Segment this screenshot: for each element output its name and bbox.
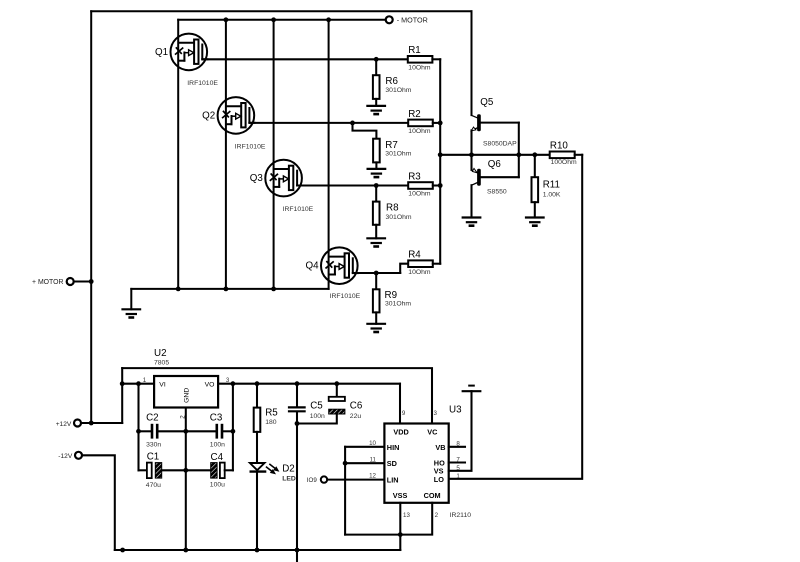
wire: U2 GND pin column <box>185 408 187 550</box>
wire: R6 bottom stub <box>375 99 377 106</box>
wire: VS lead to inverted ground <box>449 391 472 471</box>
resistor R3 <box>408 182 433 189</box>
wire: R3 to bus <box>433 184 440 186</box>
svg-text:C3: C3 <box>210 413 223 424</box>
wire: COM drop <box>400 503 432 535</box>
svg-text:Q2: Q2 <box>202 110 215 121</box>
svg-text:HIN: HIN <box>387 443 400 452</box>
wire: LIN lead <box>327 479 384 481</box>
svg-text:R6: R6 <box>385 76 398 87</box>
wire: D2 to bottom rail <box>256 473 258 550</box>
svg-text:13: 13 <box>403 512 410 519</box>
svg-text:C1: C1 <box>147 452 160 463</box>
junction: drain rail / Q4 <box>326 17 331 22</box>
svg-text:R4: R4 <box>408 250 421 261</box>
wire: common source rail <box>131 288 328 290</box>
svg-text:301Ohm: 301Ohm <box>385 151 411 158</box>
svg-text:LED: LED <box>282 476 296 483</box>
wire: VSS drop <box>399 503 401 550</box>
wire: C5 bottom run to bottom rail <box>296 412 298 562</box>
junction: drain rail / Q2 <box>224 17 229 22</box>
svg-text:C4: C4 <box>211 452 224 463</box>
svg-text:VDD: VDD <box>393 428 408 437</box>
junction: source rail / Q3 <box>271 287 276 292</box>
svg-text:301Ohm: 301Ohm <box>385 300 411 307</box>
wire: Q2 drain/source vertical <box>225 20 227 289</box>
wire: R1 to bus <box>432 58 440 60</box>
transistor Q5 (S8050DAP NPN) <box>471 114 481 131</box>
resistor R6 <box>373 75 380 99</box>
svg-text:3: 3 <box>434 410 438 417</box>
svg-text:IRF1010E: IRF1010E <box>235 144 266 151</box>
svg-text:22u: 22u <box>350 413 362 420</box>
wire: +12V lead <box>81 422 122 424</box>
junction: Q2 gate / R7 jog <box>350 121 355 126</box>
junction: column / C3 row <box>231 429 236 434</box>
wire: Q6 collector to ground <box>470 185 472 217</box>
wire: R5 to D2 <box>256 432 258 463</box>
wire: R7 bottom stub <box>375 162 377 169</box>
wire: R9 top stub <box>375 273 377 289</box>
svg-text:C5: C5 <box>310 401 323 412</box>
wire: source rail ground stub <box>130 289 132 309</box>
svg-text:1: 1 <box>456 473 460 480</box>
svg-text:IRF1010E: IRF1010E <box>330 293 361 300</box>
wire: bottom tie HIN/SD to VSS <box>345 534 400 536</box>
wire: R5 top stub <box>256 384 258 408</box>
svg-text:LO: LO <box>434 475 444 484</box>
ground (R9) <box>367 324 385 332</box>
resistor R9 <box>373 289 380 312</box>
svg-text:U3: U3 <box>449 405 462 416</box>
wire: R11 top stub <box>534 155 536 177</box>
wire: Q3 gate to R3 <box>297 184 408 186</box>
svg-text:12: 12 <box>369 473 376 480</box>
wire: Q4 gate run <box>353 272 400 274</box>
ground (R8) <box>367 238 385 246</box>
svg-text:100n: 100n <box>310 413 325 420</box>
wire: SD lead <box>345 462 384 464</box>
svg-text:100u: 100u <box>210 482 225 489</box>
wire: C2 right lead <box>159 430 186 432</box>
svg-text:IRF1010E: IRF1010E <box>283 206 314 213</box>
wire: Q5 emitter / Q6 emitter node <box>470 130 472 170</box>
wire: R8 bottom stub <box>375 225 377 239</box>
wire: Q4 drain/source vertical <box>328 20 330 289</box>
junction: C5 / C6 return <box>295 421 300 426</box>
junction: Q4 gate / R9 <box>374 271 379 276</box>
wire: Q6 base lead <box>481 176 519 178</box>
svg-text:VC: VC <box>427 428 438 437</box>
svg-text:VO: VO <box>205 382 215 389</box>
transistor Q6 (S8550 PNP) <box>471 168 480 185</box>
svg-text:R1: R1 <box>408 45 421 56</box>
capacitor C2 <box>152 424 157 439</box>
terminal -12V <box>75 452 82 459</box>
junction: GND column / C1 row <box>183 468 188 473</box>
wire: -12V drop <box>82 455 115 550</box>
svg-text:330n: 330n <box>146 442 161 449</box>
junction: tap / R11 <box>532 152 537 157</box>
svg-text:GND: GND <box>184 388 191 403</box>
wire: R1-R4 right bus <box>439 59 441 263</box>
ground (R6) <box>367 106 385 114</box>
wire: top border (+12V rail) <box>91 10 471 12</box>
svg-text:R8: R8 <box>386 202 399 213</box>
resistor R8 <box>373 202 380 225</box>
wire: R10 to LO riser <box>575 154 583 156</box>
resistor R11 <box>532 177 539 202</box>
wire: HO stub <box>449 461 465 463</box>
junction: VI rail / C1-C2 column <box>136 381 141 386</box>
transistor Q2 (IRF1010E N-MOSFET) <box>218 97 255 134</box>
junction: source rail / Q2 <box>224 287 229 292</box>
junction: bottom rail / D2 column <box>255 548 260 553</box>
svg-text:VSS: VSS <box>393 491 408 500</box>
ground (Q6) <box>463 218 481 226</box>
svg-text:R5: R5 <box>265 407 278 418</box>
inverted ground symbol (VS) <box>463 386 481 392</box>
svg-text:D2: D2 <box>282 464 295 475</box>
svg-text:U2: U2 <box>154 348 167 359</box>
junction: VSS / bottom tie <box>398 532 403 537</box>
svg-text:SD: SD <box>387 459 397 468</box>
svg-text:COM: COM <box>424 491 441 500</box>
wire: R4 to bus <box>433 263 440 265</box>
svg-text:Q3: Q3 <box>250 173 264 184</box>
junction: bottom rail stray dot <box>120 548 125 553</box>
wire: R9 bottom stub <box>375 312 377 323</box>
wire: R2 to bus <box>433 122 440 124</box>
svg-text:100Ohm: 100Ohm <box>551 159 577 166</box>
wire: Q5 collector riser from top border <box>471 11 473 115</box>
svg-text:Q6: Q6 <box>488 159 502 170</box>
wire: R6 top stub <box>375 59 377 75</box>
terminal IO9 <box>321 476 327 482</box>
wire: LO riser <box>449 155 583 479</box>
svg-text:R2: R2 <box>408 109 421 120</box>
junction: Q1 gate / R6 <box>374 57 379 62</box>
transistor Q4 (IRF1010E N-MOSFET) <box>321 247 358 284</box>
svg-text:+12V: +12V <box>56 421 72 428</box>
wire: VDD drop <box>399 384 401 424</box>
svg-text:2: 2 <box>435 512 439 519</box>
terminal -MOTOR <box>386 16 393 23</box>
svg-text:100n: 100n <box>210 442 225 449</box>
junction: VO rail / C5 <box>295 381 300 386</box>
junction: GND column / C2 row <box>183 429 188 434</box>
svg-text:180: 180 <box>265 419 277 426</box>
svg-text:IRF1010E: IRF1010E <box>187 80 218 87</box>
wire: C4 right lead <box>225 469 233 471</box>
wire: HIN lead <box>345 446 384 448</box>
capacitor C4 (electrolytic) <box>211 463 225 479</box>
svg-text:10Ohm: 10Ohm <box>408 64 431 71</box>
svg-text:LIN: LIN <box>387 475 399 484</box>
wire: Q1 gate to R1 <box>202 58 407 60</box>
svg-text:- MOTOR: - MOTOR <box>397 16 428 25</box>
svg-text:Q4: Q4 <box>306 261 320 272</box>
wire: Q3 drain/source vertical <box>273 20 275 289</box>
wire: C3 right lead <box>223 430 233 432</box>
terminal +MOTOR <box>67 278 74 285</box>
wire: C1 right lead <box>162 469 211 471</box>
wire: -MOTOR drain rail <box>178 19 386 21</box>
wire: base tie vertical <box>518 123 520 178</box>
capacitor C5 <box>288 407 306 411</box>
junction: tap / base box <box>516 152 521 157</box>
junction: bottom rail / GND column <box>183 548 188 553</box>
wire: R11 bottom stub <box>534 202 536 217</box>
driver U3 (IR2110) <box>384 424 448 503</box>
svg-text:C2: C2 <box>146 413 159 424</box>
svg-text:9: 9 <box>402 410 406 417</box>
ground (source rail) <box>123 309 141 317</box>
ground (R11) <box>526 218 544 226</box>
resistor R2 <box>408 120 433 127</box>
junction: bus / R2 <box>438 121 443 126</box>
junction: C2 row <box>136 429 141 434</box>
svg-text:S8550: S8550 <box>487 189 507 196</box>
svg-text:VI: VI <box>159 382 166 389</box>
resistor R5 <box>254 408 261 432</box>
svg-text:10Ohm: 10Ohm <box>408 128 431 135</box>
capacitor C3 <box>217 424 222 439</box>
wire: C2 left lead <box>139 430 151 432</box>
svg-text:7805: 7805 <box>154 360 169 367</box>
junction: +12V on left border <box>89 421 94 426</box>
svg-text:IR2110: IR2110 <box>450 512 472 519</box>
regulator U2 (7805) <box>154 376 218 408</box>
svg-text:VB: VB <box>435 443 445 452</box>
wire: VO rail <box>218 383 400 385</box>
svg-text:301Ohm: 301Ohm <box>386 214 412 221</box>
svg-text:1: 1 <box>143 377 147 384</box>
junction: tap / Q5-Q6 node <box>469 152 474 157</box>
wire: C1/C2 column <box>137 384 139 471</box>
wire: R8 top stub <box>375 186 377 202</box>
junction: bottom rail / C5 column <box>295 548 300 553</box>
wire: Q2 gate to R2 <box>249 122 408 124</box>
wire: VB stub <box>449 446 465 448</box>
svg-text:R3: R3 <box>408 171 421 182</box>
wire: supply top rail to VC <box>122 368 432 423</box>
capacitor C6 (electrolytic) <box>329 397 345 414</box>
junction: VO rail / C6 <box>334 381 339 386</box>
svg-text:+ MOTOR: + MOTOR <box>32 279 63 286</box>
wire: bottom rail <box>115 549 401 551</box>
junction: bus / mid tap <box>438 152 443 157</box>
svg-text:Q1: Q1 <box>155 47 168 58</box>
wire: C3 left lead <box>186 430 216 432</box>
junction: VO rail / R5 <box>255 381 260 386</box>
wire: R4 jog up <box>400 264 408 273</box>
terminal +12V <box>74 420 81 427</box>
wire: left border (+12V / +MOTOR) <box>90 11 92 423</box>
wire: HIN/SD vertical <box>344 447 346 535</box>
resistor R1 <box>408 56 433 63</box>
wire: C5 top stub <box>296 384 298 407</box>
wire: mid tap to R10 <box>440 154 550 156</box>
svg-text:10Ohm: 10Ohm <box>408 191 431 198</box>
svg-text:10Ohm: 10Ohm <box>408 269 431 276</box>
svg-text:S8050DAP: S8050DAP <box>483 141 517 148</box>
transistor Q3 (IRF1010E N-MOSFET) <box>265 160 302 197</box>
svg-text:C6: C6 <box>350 401 363 412</box>
junction: riser / VI rail <box>120 381 125 386</box>
wire: C6 top stub <box>336 384 338 397</box>
junction: Q3 gate / R8 <box>374 183 379 188</box>
wire: VI rail <box>122 383 154 385</box>
transistor Q1 (IRF1010E N-MOSFET) <box>171 34 208 71</box>
svg-text:-12V: -12V <box>58 453 73 460</box>
resistor R4 <box>408 260 433 267</box>
svg-text:R10: R10 <box>550 140 569 151</box>
junction: +MOTOR on left border <box>89 279 94 284</box>
wire: +12V riser <box>121 368 123 423</box>
resistor R10 <box>550 152 575 159</box>
junction: source rail / Q1 <box>176 287 181 292</box>
wire: Q1 drain/source vertical <box>177 20 179 289</box>
svg-text:1.00K: 1.00K <box>543 191 561 198</box>
junction: bus / R3 <box>438 183 443 188</box>
svg-text:R11: R11 <box>543 180 560 191</box>
svg-text:470u: 470u <box>146 482 161 489</box>
resistor R7 <box>373 139 380 163</box>
svg-text:R7: R7 <box>385 140 398 151</box>
capacitor C1 (electrolytic) <box>147 463 162 479</box>
svg-text:301Ohm: 301Ohm <box>385 87 411 94</box>
wire: Q5 base lead <box>481 122 519 124</box>
wire: C1 left lead <box>139 469 147 471</box>
junction: VO rail / C3-C4 column <box>231 381 236 386</box>
junction: SD / vertical <box>343 461 348 466</box>
diode D2 (LED) <box>250 463 280 474</box>
ground (R7) <box>368 169 386 177</box>
wire: R7 jog from Q2 gate node <box>353 123 377 139</box>
wire: C6 return to C5 node <box>297 414 337 424</box>
junction: drain rail / Q3 <box>271 17 276 22</box>
svg-text:IO9: IO9 <box>307 477 318 484</box>
svg-text:Q5: Q5 <box>480 97 494 108</box>
wire: +MOTOR lead <box>74 281 91 283</box>
wire: C3/C4 column <box>232 384 234 471</box>
